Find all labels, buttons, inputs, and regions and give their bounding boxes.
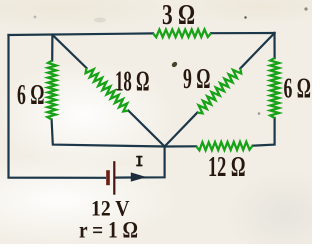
svg-text:6 Ω: 6 Ω bbox=[17, 80, 45, 111]
svg-text:r = 1 Ω: r = 1 Ω bbox=[79, 218, 138, 243]
svg-text:9 Ω: 9 Ω bbox=[183, 64, 211, 95]
svg-text:12 Ω: 12 Ω bbox=[208, 152, 246, 183]
svg-text:18 Ω: 18 Ω bbox=[115, 67, 150, 98]
svg-text:6 Ω: 6 Ω bbox=[284, 74, 312, 105]
svg-text:3 Ω: 3 Ω bbox=[162, 0, 195, 31]
